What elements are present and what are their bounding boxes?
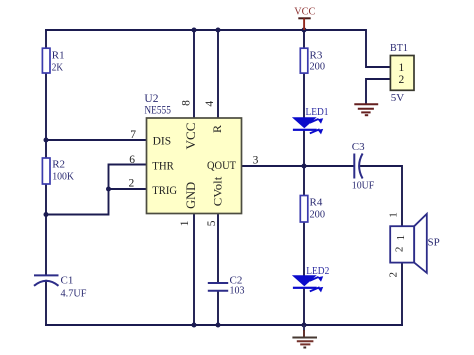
svg-text:C1: C1 xyxy=(61,275,74,287)
svg-text:R4: R4 xyxy=(310,196,323,208)
svg-text:8: 8 xyxy=(180,100,192,106)
svg-text:2: 2 xyxy=(394,247,406,253)
svg-text:GND: GND xyxy=(184,182,198,209)
svg-text:R: R xyxy=(210,125,224,133)
svg-text:C3: C3 xyxy=(352,141,365,153)
svg-text:5V: 5V xyxy=(391,92,405,104)
svg-text:R1: R1 xyxy=(52,49,65,61)
svg-text:6: 6 xyxy=(129,154,135,166)
svg-text:THR: THR xyxy=(152,160,174,172)
svg-text:QOUT: QOUT xyxy=(207,160,236,172)
svg-text:103: 103 xyxy=(230,285,245,297)
svg-text:7: 7 xyxy=(130,129,136,141)
svg-text:BT1: BT1 xyxy=(390,42,408,54)
svg-text:VCC: VCC xyxy=(184,123,198,150)
svg-text:1: 1 xyxy=(388,212,400,218)
svg-text:200: 200 xyxy=(310,60,326,72)
svg-text:LED1: LED1 xyxy=(306,106,329,118)
svg-text:1: 1 xyxy=(179,220,191,226)
svg-text:VCC: VCC xyxy=(294,5,315,17)
svg-text:2: 2 xyxy=(388,272,400,278)
svg-text:1: 1 xyxy=(395,235,407,241)
svg-text:1: 1 xyxy=(399,62,405,74)
svg-text:10UF: 10UF xyxy=(352,179,375,191)
svg-text:200: 200 xyxy=(310,208,326,220)
svg-text:CVolt: CVolt xyxy=(210,176,224,206)
svg-text:4.7UF: 4.7UF xyxy=(61,288,87,300)
svg-text:LED2: LED2 xyxy=(306,265,329,277)
svg-text:SP: SP xyxy=(428,237,440,249)
svg-text:DIS: DIS xyxy=(153,136,172,148)
svg-text:R2: R2 xyxy=(52,158,65,170)
svg-text:4: 4 xyxy=(204,101,216,107)
svg-text:TRIG: TRIG xyxy=(152,185,177,197)
svg-text:2K: 2K xyxy=(52,61,63,73)
svg-text:3: 3 xyxy=(253,154,259,166)
svg-text:NE555: NE555 xyxy=(144,104,171,116)
svg-text:2: 2 xyxy=(399,74,405,86)
svg-text:2: 2 xyxy=(129,178,135,190)
svg-text:100K: 100K xyxy=(52,170,74,182)
svg-text:5: 5 xyxy=(206,220,218,226)
svg-text:U2: U2 xyxy=(144,93,158,105)
